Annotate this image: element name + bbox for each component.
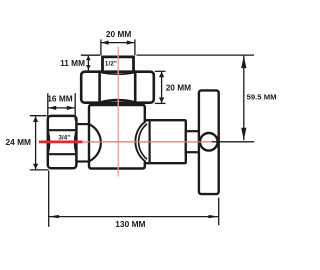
svg-text:20 MM: 20 MM xyxy=(106,29,131,39)
svg-text:11 MM: 11 MM xyxy=(60,58,85,68)
svg-text:24 MM: 24 MM xyxy=(6,137,31,147)
svg-text:16 MM: 16 MM xyxy=(47,93,72,103)
svg-text:3/4": 3/4" xyxy=(58,135,70,142)
svg-text:59.5 MM: 59.5 MM xyxy=(247,93,277,102)
svg-text:1/2": 1/2" xyxy=(105,61,117,68)
svg-text:20 MM: 20 MM xyxy=(166,82,191,92)
svg-text:130 MM: 130 MM xyxy=(115,219,145,229)
